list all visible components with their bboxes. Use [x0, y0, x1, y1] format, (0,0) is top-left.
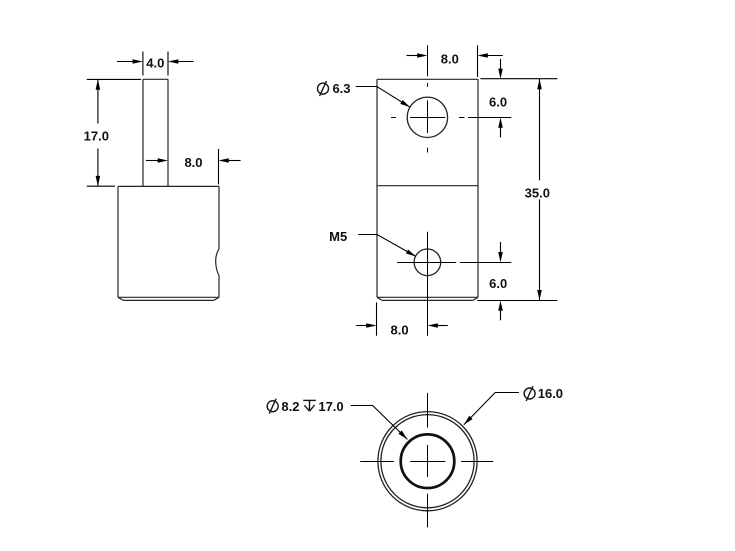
svg-text:6.0: 6.0 — [489, 95, 507, 110]
svg-text:8.2: 8.2 — [281, 399, 299, 414]
svg-text:8.0: 8.0 — [391, 323, 409, 338]
svg-text:16.0: 16.0 — [538, 386, 563, 401]
svg-text:4.0: 4.0 — [146, 55, 164, 70]
svg-text:8.0: 8.0 — [441, 52, 459, 67]
svg-text:35.0: 35.0 — [525, 186, 550, 201]
svg-text:8.0: 8.0 — [184, 155, 202, 170]
svg-text:17.0: 17.0 — [318, 399, 343, 414]
svg-text:6.0: 6.0 — [489, 276, 507, 291]
svg-text:M5: M5 — [329, 229, 347, 244]
svg-text:6.3: 6.3 — [332, 81, 350, 96]
svg-text:17.0: 17.0 — [84, 128, 109, 143]
